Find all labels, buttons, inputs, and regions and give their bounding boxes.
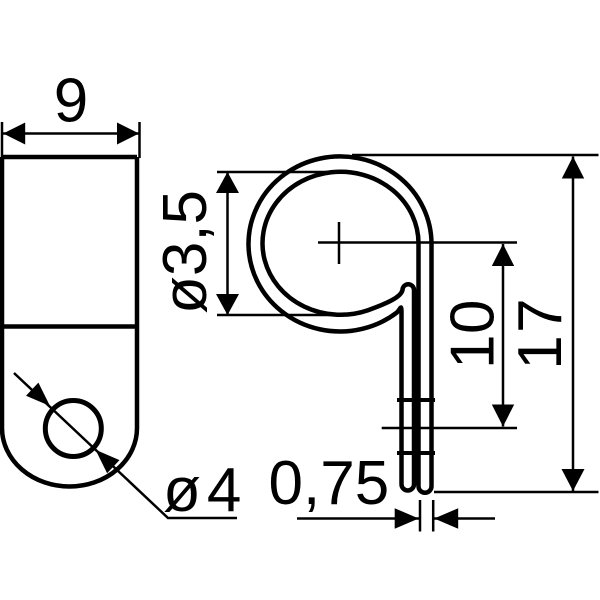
17 arrow top <box>562 157 584 179</box>
svg-text:ø3,5: ø3,5 <box>151 190 220 314</box>
center cross horizontal / 10 top extension <box>318 241 517 244</box>
hole leader arrow upper <box>26 383 50 406</box>
hole leader line <box>14 373 237 518</box>
ø3,5 bottom extension line <box>217 314 342 317</box>
dimension 9 extension line left <box>1 122 4 157</box>
17 dimension line <box>572 157 575 492</box>
ø3,5 dimension line <box>226 172 229 315</box>
strap tick upper <box>397 398 435 402</box>
hole leader arrow lower <box>96 450 120 473</box>
0,75 arrow left <box>395 508 419 529</box>
0,75 dimension line left <box>297 517 419 520</box>
svg-text:ø4: ø4 <box>163 456 247 525</box>
0,75 extension line right <box>432 500 435 532</box>
svg-text:9: 9 <box>54 67 88 136</box>
side view divider line <box>2 324 137 329</box>
svg-text:17: 17 <box>506 296 575 370</box>
0,75 dimension line right <box>434 517 495 520</box>
svg-text:0,75: 0,75 <box>269 449 390 518</box>
dimension 9 line <box>3 132 140 135</box>
ø3,5 arrow top <box>216 172 239 193</box>
10 arrow bottom <box>492 405 514 427</box>
side view body outline <box>2 157 137 487</box>
17 arrow bottom <box>562 469 585 491</box>
dimension 9 arrow left <box>3 123 25 145</box>
17 top extension line <box>352 154 599 157</box>
svg-text:10: 10 <box>439 299 508 369</box>
0,75 arrow right <box>434 508 458 529</box>
17 bottom extension line <box>434 491 599 494</box>
front view clip profile <box>249 156 432 492</box>
ø3,5 top extension line <box>217 171 345 174</box>
center cross vertical <box>338 222 341 264</box>
strap tick lower <box>397 451 435 455</box>
ø3,5 arrow bottom <box>216 294 239 315</box>
10 dimension line <box>502 244 505 427</box>
dimension 9 arrow right <box>117 123 139 145</box>
10 bottom extension line <box>382 427 517 430</box>
dimension 9 extension line right <box>138 122 141 158</box>
10 arrow top <box>492 244 514 266</box>
0,75 extension line left <box>419 500 422 532</box>
hole circle <box>45 401 101 457</box>
